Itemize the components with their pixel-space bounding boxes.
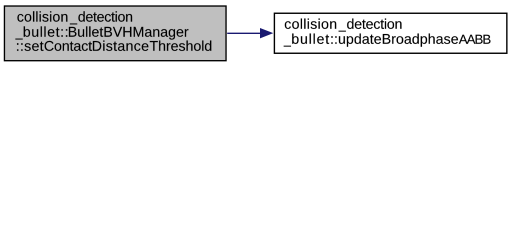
label run L3d Threshold — [150, 41, 212, 51]
edge: call arrow shaft — [227, 32, 261, 34]
label run R1b detection — [347, 19, 401, 29]
node box: BulletBVHManager::setContactDistanceThreshold (current node, grey) — [4, 6, 226, 61]
label run L2b BulletBVHManager — [69, 26, 188, 39]
label run L2 underscore — [15, 38, 22, 41]
label run R2c AABB — [459, 35, 491, 44]
label run L3a ::set — [17, 42, 44, 51]
label run L3b Contact — [45, 41, 92, 51]
node box: updateBroadphaseAABB (callee, white) — [274, 13, 506, 53]
label run L1a collision — [17, 11, 67, 21]
label run L1b detection — [78, 11, 132, 21]
label run R1a collision — [285, 19, 336, 29]
edge: arrowhead — [260, 28, 273, 38]
label run R2 underscore — [284, 45, 291, 48]
label run L1 underscore — [70, 23, 77, 26]
doxygen call graph: collision_detection_bullet::BulletBVHManager::setContactDistanceThreshold calls collision_detection_bullet::updateBroadphaseAABB — [0, 0, 512, 67]
label run R1 underscore — [339, 30, 346, 33]
label run R2b ::updateBroadphase — [331, 34, 458, 47]
label run R2a bullet — [292, 34, 329, 44]
label run L2a bullet:: — [24, 26, 68, 36]
label run L3c Distance — [93, 41, 148, 51]
